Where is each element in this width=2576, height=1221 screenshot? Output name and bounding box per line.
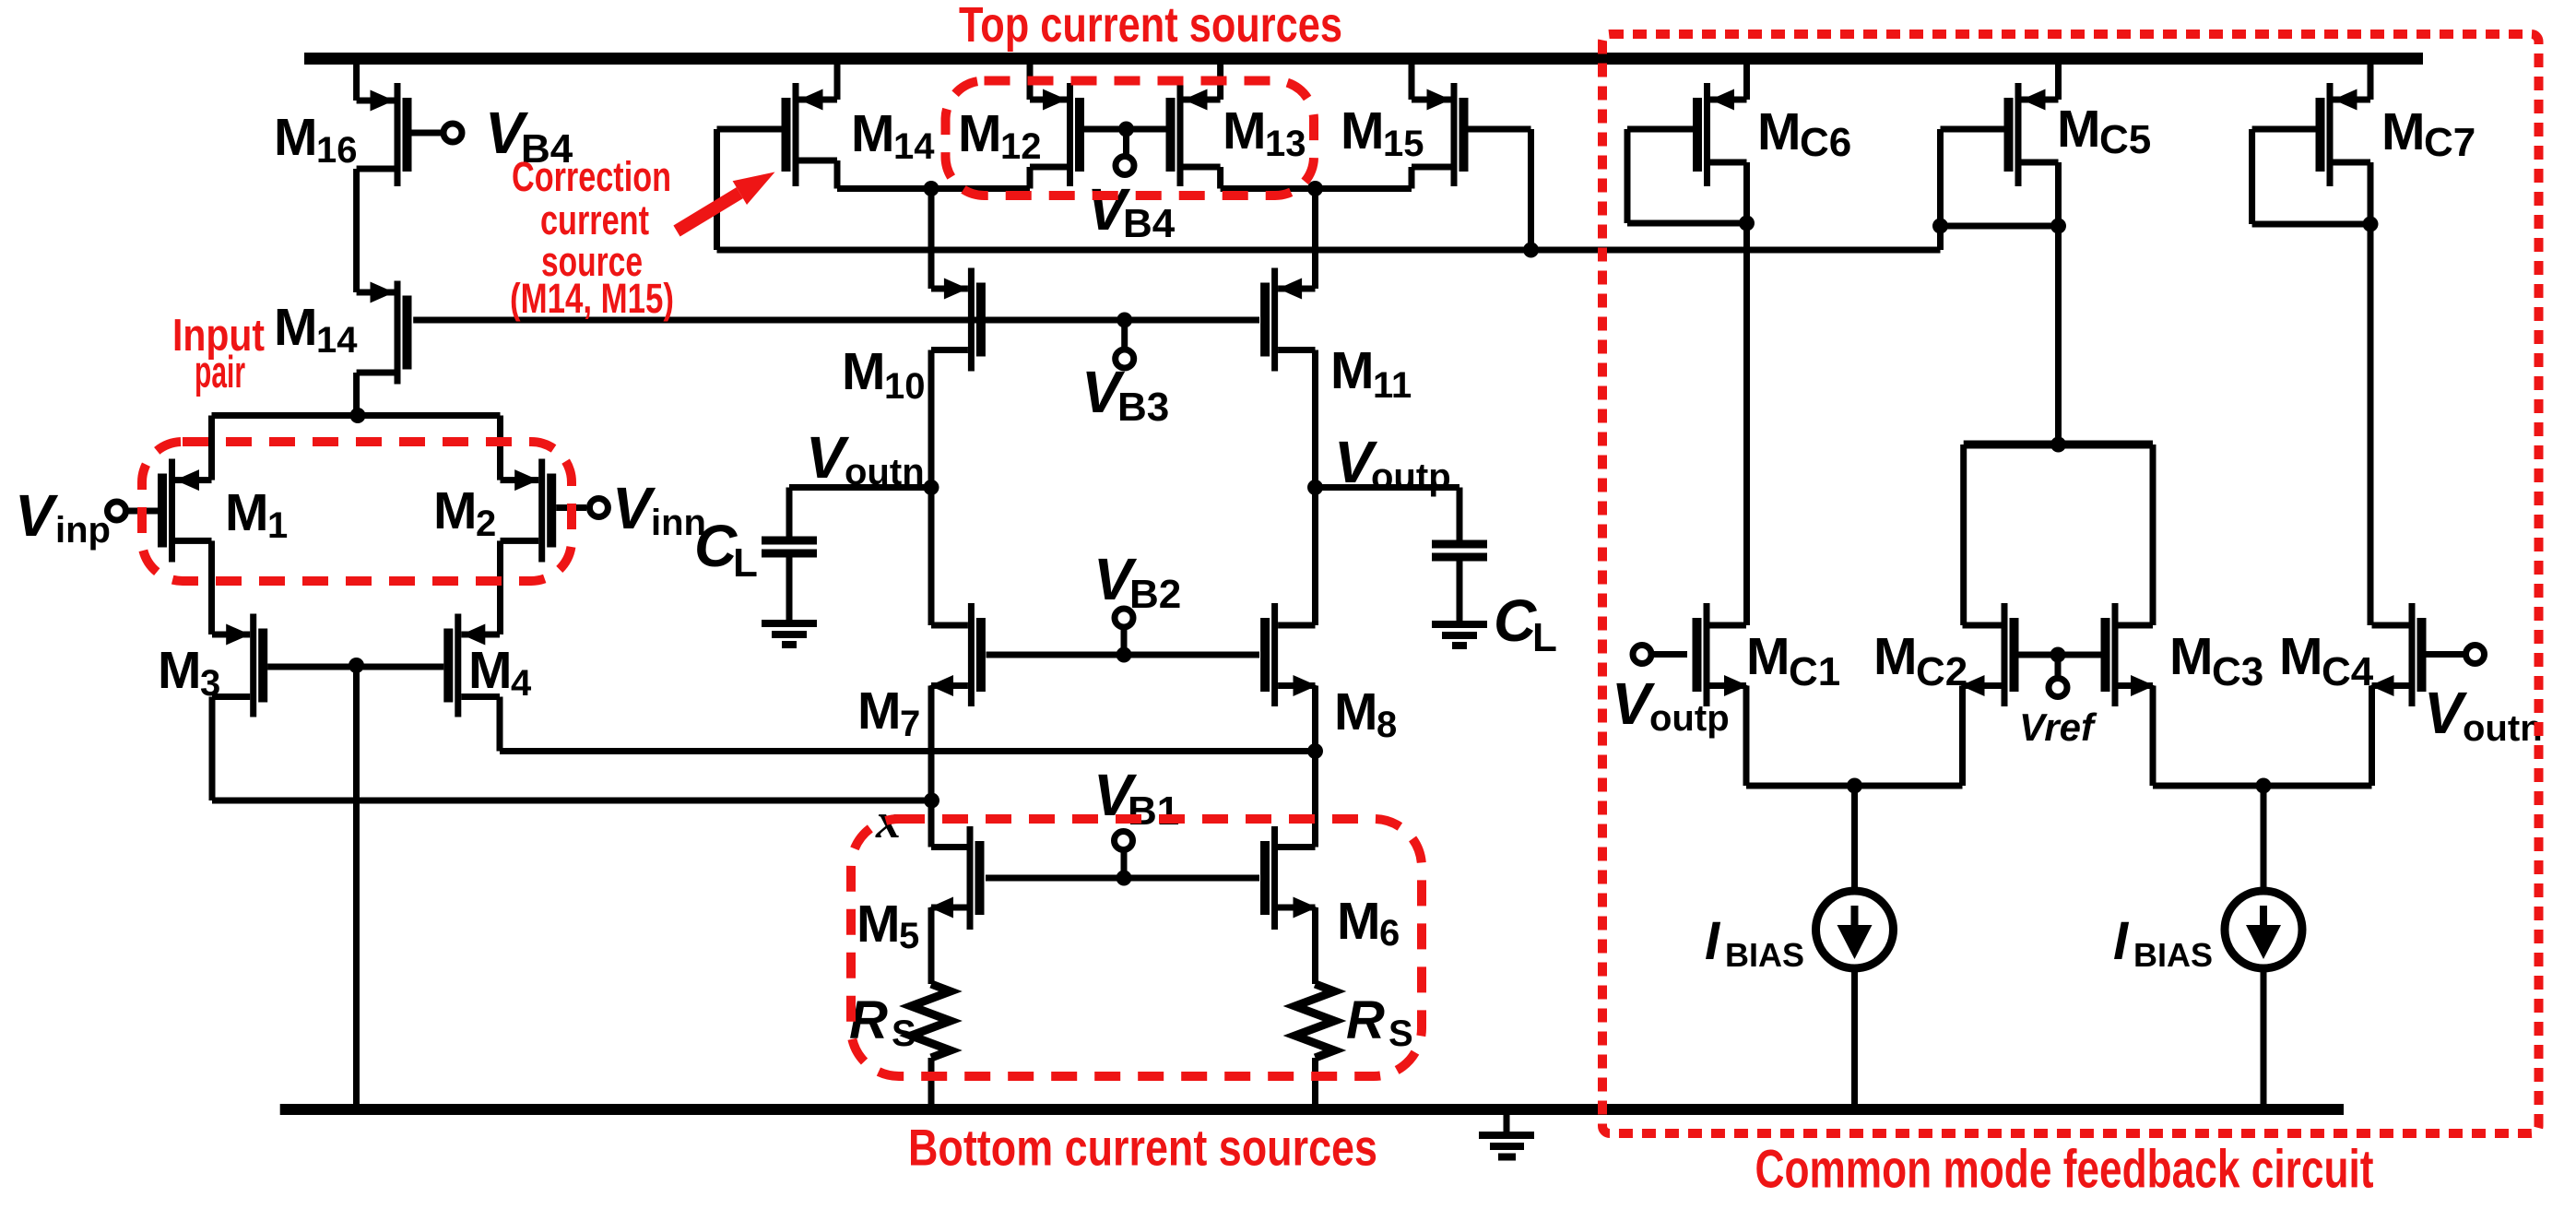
svg-text:BIAS: BIAS (1725, 936, 1804, 974)
transistor M2 (501, 459, 557, 563)
wire M13 source to VDD (1217, 61, 1223, 100)
wire MC6 drain drop (1743, 162, 1750, 223)
wire IBIAS2 stem bottom (2261, 966, 2267, 1104)
node MC6 gate drain junction (1739, 216, 1755, 231)
transistor M13 (1166, 83, 1221, 186)
transistor MC7 (2316, 83, 2371, 186)
resistor RS left (911, 984, 951, 1058)
svg-text:8: 8 (1377, 705, 1397, 745)
svg-text:C6: C6 (1800, 120, 1851, 165)
svg-text:I: I (2113, 911, 2130, 971)
label Voutn (806, 424, 925, 492)
svg-text:M: M (1337, 892, 1380, 951)
wire node x horizontal (212, 798, 932, 804)
svg-text:current: current (540, 196, 649, 243)
svg-text:R: R (1346, 990, 1385, 1050)
svg-text:M: M (433, 481, 477, 540)
wire MC2 drain riser (1960, 445, 1967, 625)
svg-text:M: M (851, 104, 894, 163)
label VB1 (1093, 762, 1179, 834)
wire M2 drain to M4 (497, 540, 503, 634)
label IBIAS1 (1705, 911, 1804, 974)
wire M12 drain drop (1027, 167, 1034, 189)
annotation CMFB text (1755, 1140, 2374, 1200)
svg-text:M: M (1746, 627, 1790, 686)
wire M4 to M8 source (500, 748, 1316, 754)
annotation correction arrow (673, 172, 774, 237)
wire M8 source to node (1312, 686, 1318, 752)
label M11 (1330, 341, 1412, 406)
wire IBIAS2 stem top (2261, 786, 2267, 893)
wire Voutn tap (789, 484, 931, 491)
wire VDD rail (304, 53, 2423, 65)
svg-text:outp: outp (1649, 698, 1730, 739)
wire correction bias line (717, 247, 1941, 254)
svg-text:V: V (2424, 680, 2468, 746)
node M11 source junction (1307, 181, 1323, 196)
node tail junction (350, 408, 366, 423)
ground CL left (762, 620, 817, 648)
node Voutn terminal at MC4 (2466, 646, 2485, 664)
wire M15 gate lead (1469, 126, 1531, 133)
svg-text:M: M (1873, 627, 1917, 686)
wire RS right to ground (1312, 1058, 1318, 1104)
current source IBIAS2 (2225, 891, 2302, 968)
svg-text:Vref: Vref (2019, 705, 2097, 749)
wire M5 drain riser (928, 800, 935, 848)
svg-text:(M14, M15): (M14, M15) (510, 275, 674, 322)
resistor RS right (1295, 984, 1335, 1058)
node MC7 gate drain junction (2363, 217, 2379, 232)
wire IBIAS1 stem top (1851, 786, 1858, 893)
svg-text:7: 7 (900, 704, 920, 744)
label VB3 (1081, 359, 1169, 430)
label Voutp at MC1 (1612, 670, 1730, 739)
label M13 (1223, 101, 1306, 164)
svg-text:B4: B4 (1123, 201, 1176, 246)
node Vref terminal (2049, 679, 2067, 697)
svg-text:M: M (274, 108, 317, 167)
wire RS left to ground (928, 1058, 935, 1104)
node VB3 dot (1117, 313, 1132, 328)
svg-text:6: 6 (1379, 913, 1400, 954)
wire VB3 stem (1121, 320, 1128, 349)
label MC1 (1746, 627, 1840, 694)
wire bias line up to MC5 (1937, 226, 1944, 250)
svg-text:outn: outn (2463, 708, 2543, 749)
svg-text:M: M (842, 342, 885, 401)
svg-text:C1: C1 (1789, 649, 1840, 694)
svg-text:16: 16 (316, 130, 358, 171)
transistor M11 (1260, 268, 1315, 372)
wire IBIAS1 stem bottom (1851, 966, 1858, 1104)
wire MC2 MC3 drain bar (1964, 441, 2153, 449)
label Vref (2019, 705, 2097, 749)
wire VB3 line (413, 317, 1259, 324)
label M15 (1341, 101, 1424, 164)
svg-text:15: 15 (1383, 124, 1424, 164)
svg-text:M: M (2381, 102, 2425, 161)
wire Voutp tap (1316, 484, 1460, 491)
label Vinn (612, 475, 706, 543)
wire MC4 gate lead (2427, 651, 2466, 658)
svg-text:outn: outn (845, 452, 925, 492)
wire MC5 drain down (2055, 226, 2062, 445)
wire MC4 source drop (2369, 686, 2375, 787)
wire VB2 line (987, 652, 1260, 658)
svg-text:M: M (158, 641, 201, 700)
label Voutp (1334, 429, 1451, 497)
capacitor CL left (762, 537, 817, 558)
label M2 (433, 481, 496, 544)
label M4 (468, 641, 532, 704)
current source IBIAS1 (1816, 891, 1894, 968)
transistor MC5 (2004, 83, 2059, 186)
wire M7 source to node x (928, 686, 935, 801)
svg-text:C3: C3 (2212, 649, 2263, 694)
annotation input pair text (172, 311, 265, 397)
svg-text:M: M (225, 483, 268, 542)
wire Vinn lead (556, 504, 586, 511)
svg-text:inp: inp (55, 510, 111, 551)
node M15 gate on bias line (1523, 243, 1539, 258)
label M14 top (851, 104, 935, 167)
wire MC7 source to VDD (2368, 61, 2374, 100)
label RS right (1346, 990, 1413, 1054)
node VB1 dot (1117, 871, 1132, 886)
transistor M1 (158, 459, 212, 563)
svg-text:C7: C7 (2424, 120, 2476, 165)
wire MC3 source drop (2150, 686, 2157, 787)
wire MC1 gate lead (1651, 651, 1687, 658)
transistor M4 (443, 614, 500, 717)
transistor M16 (357, 83, 412, 186)
wire top node right (1221, 185, 1412, 192)
transistor MC6 (1693, 83, 1747, 186)
svg-text:I: I (1705, 911, 1721, 971)
node VB4 terminal at M16 (443, 124, 462, 142)
svg-text:Correction: Correction (512, 153, 671, 200)
wire MC5 source to VDD (2055, 61, 2062, 100)
node Voutp junction (1307, 480, 1323, 495)
svg-text:14: 14 (316, 320, 358, 361)
svg-text:2: 2 (476, 504, 496, 544)
wire M10 source riser (928, 189, 935, 290)
wire M10 drain to Voutn (928, 350, 935, 488)
node M3 M4 gate junction (349, 658, 364, 673)
annotation bottom current sources text (908, 1119, 1377, 1177)
label MC7 (2381, 102, 2476, 165)
node VB4 mid terminal (1116, 157, 1134, 175)
annotation bottom current sources box (851, 819, 1422, 1076)
svg-text:S: S (892, 1014, 916, 1054)
svg-text:B3: B3 (1117, 385, 1169, 430)
transistor M14 top (782, 83, 838, 186)
transistor M6 (1260, 826, 1318, 930)
wire Vref stem (2055, 655, 2062, 676)
wire VB4 stem (1123, 129, 1129, 154)
wire input pair tail (212, 412, 501, 419)
wire MC7 drain to MC4 (2368, 224, 2374, 625)
svg-text:Top current sources: Top current sources (959, 0, 1342, 53)
svg-text:M: M (857, 682, 901, 741)
transistor MC4 (2370, 603, 2427, 706)
label M1 (225, 483, 288, 546)
wire MC2 source drop (1959, 686, 1966, 787)
transistor M7 (929, 603, 986, 706)
wire Vref gate link (2019, 652, 2101, 658)
svg-text:C: C (1494, 587, 1537, 654)
node M10 source junction (924, 181, 939, 196)
svg-text:Bottom current sources: Bottom current sources (908, 1119, 1377, 1177)
wire M4 source down (497, 697, 503, 752)
label M7 (857, 682, 920, 744)
node MC5 drain split (2050, 437, 2066, 453)
wire VB2 stem (1121, 629, 1128, 655)
wire VB1 line (986, 875, 1259, 882)
svg-text:BIAS: BIAS (2133, 936, 2213, 974)
wire M12 M13 gate link (1084, 126, 1166, 133)
wire M16 source to VDD (353, 61, 360, 101)
wire M8 drain riser (1312, 488, 1318, 626)
wire M3 source down (209, 697, 216, 801)
svg-text:12: 12 (1000, 126, 1042, 167)
svg-text:M: M (1330, 341, 1374, 400)
label M16 (274, 108, 358, 171)
label MC4 (2279, 627, 2374, 694)
svg-text:M: M (1341, 101, 1384, 160)
svg-text:C4: C4 (2322, 649, 2374, 694)
svg-text:M: M (2169, 627, 2213, 686)
node MC5 drain junction (2050, 219, 2066, 234)
wire M16 gate lead (412, 130, 442, 136)
wire M13 drain drop (1217, 167, 1223, 189)
svg-text:V: V (612, 475, 656, 541)
wire MC7 drain drop (2368, 162, 2374, 224)
label MC5 (2057, 100, 2151, 162)
wire M1 drain to M3 (208, 540, 215, 634)
transistor MC2 (1961, 603, 2019, 706)
svg-text:M: M (2279, 627, 2322, 686)
wire VB1 stem (1121, 852, 1128, 878)
wire MC5 drain drop (2055, 162, 2062, 226)
svg-text:M: M (1223, 101, 1266, 160)
label M12 (958, 104, 1042, 167)
ground CL right (1432, 621, 1487, 649)
label Voutn at MC4 (2424, 680, 2543, 749)
node M8 source junction (1307, 743, 1323, 759)
transistor M8 (1260, 603, 1317, 706)
svg-text:B2: B2 (1129, 572, 1181, 617)
node VB2 terminal (1115, 609, 1133, 627)
svg-text:C: C (694, 513, 738, 579)
svg-text:M: M (468, 641, 512, 700)
wire M15 source to VDD (1409, 61, 1415, 100)
transistor M3 (212, 614, 267, 717)
label MC2 (1873, 627, 1967, 694)
annotation CMFB box (1602, 34, 2539, 1133)
wire M6 drain riser (1312, 752, 1318, 848)
wire M15 drain drop (1409, 167, 1415, 189)
wire MC3 drain riser (2150, 445, 2157, 625)
svg-text:5: 5 (899, 916, 919, 956)
label M8 (1334, 682, 1397, 745)
node MC5 gate junction (1932, 219, 1948, 234)
svg-text:L: L (733, 540, 758, 586)
svg-text:14: 14 (893, 126, 935, 167)
wire M16 drain to M14 source (353, 169, 360, 292)
label M10 (842, 342, 926, 407)
node Vinn terminal (589, 499, 608, 517)
svg-text:M: M (958, 104, 1001, 163)
wire CL right lead top (1457, 488, 1463, 545)
svg-text:C5: C5 (2099, 117, 2151, 162)
label M14 left (274, 298, 358, 361)
wire MC1 source drop (1743, 686, 1750, 787)
transistor M5 (929, 826, 985, 930)
node VB4 mid dot (1118, 122, 1134, 137)
transistor M14 correction source (357, 281, 412, 385)
node Vinp terminal (108, 502, 126, 520)
svg-text:V: V (806, 424, 850, 491)
label MC6 (1757, 102, 1851, 165)
wire MC6 gate loop (1625, 126, 1747, 227)
transistor M10 (931, 268, 986, 372)
label Vinp (15, 482, 111, 551)
label node x (875, 793, 901, 848)
svg-text:M: M (1757, 102, 1801, 161)
wire M5 source lead (928, 907, 935, 984)
svg-text:M: M (274, 298, 317, 357)
label CL right (1494, 587, 1557, 660)
wire MC7 gate loop (2249, 126, 2370, 228)
transistor M15 (1412, 83, 1469, 186)
label RS left (849, 990, 916, 1054)
label M3 (158, 641, 220, 704)
wire M7 drain riser (928, 488, 935, 626)
svg-text:S: S (1388, 1014, 1413, 1054)
wire M2 source riser (497, 416, 503, 480)
capacitor CL right (1432, 540, 1487, 562)
wire M12 source to VDD (1027, 61, 1034, 100)
wire M11 drain to Voutp (1312, 350, 1318, 488)
wire M14top gate lead (717, 126, 782, 133)
label MC3 (2169, 627, 2263, 694)
annotation top current sources text (959, 0, 1342, 53)
svg-text:V: V (15, 482, 59, 549)
transistor MC3 (2101, 603, 2156, 706)
node IBIAS2 junction (2256, 778, 2272, 794)
wire M1 source riser (208, 416, 215, 480)
wire MC3 MC4 source link (2153, 783, 2372, 789)
svg-text:11: 11 (1373, 365, 1412, 406)
svg-text:M: M (2057, 100, 2100, 159)
wire MC5 gate to drain (1941, 223, 2059, 230)
wire CL right lead bottom (1457, 557, 1463, 624)
wire M14top gate drop (714, 129, 720, 250)
svg-text:outp: outp (1371, 456, 1451, 497)
svg-text:1: 1 (267, 505, 288, 546)
ground main (1479, 1109, 1534, 1161)
svg-text:L: L (1532, 615, 1557, 660)
wire gate node to ground (353, 667, 360, 1104)
svg-text:4: 4 (511, 663, 532, 704)
label M6 (1337, 892, 1400, 954)
svg-text:10: 10 (884, 366, 926, 407)
node VB2 dot (1117, 647, 1132, 663)
annotation correction text (510, 153, 674, 322)
node VB1 terminal (1115, 832, 1133, 850)
node Voutn junction (924, 480, 939, 495)
svg-text:M: M (857, 895, 900, 954)
svg-text:B1: B1 (1128, 788, 1179, 834)
node x junction (924, 793, 939, 809)
wire MC5 gate loop (1937, 126, 2004, 227)
annotation top current sources box (946, 81, 1315, 196)
wire M11 source riser (1312, 189, 1318, 290)
node Voutp terminal at MC1 (1633, 646, 1651, 664)
annotation input pair box (142, 442, 572, 581)
node VB3 terminal (1116, 350, 1134, 368)
label VB4 at M16 (485, 100, 573, 172)
wire M14 source to VDD (834, 61, 841, 100)
svg-text:pair: pair (195, 348, 245, 397)
svg-text:Common mode feedback circuit: Common mode feedback circuit (1755, 1140, 2374, 1200)
wire MC1 MC2 source link (1746, 783, 1963, 789)
wire MC6 source to VDD (1743, 61, 1750, 100)
label M5 (857, 895, 919, 956)
label IBIAS2 (2113, 911, 2213, 974)
label VB4 mid (1087, 176, 1176, 246)
node Vref dot (2050, 647, 2066, 663)
transistor M12 (1030, 83, 1084, 186)
ground rail (280, 1104, 2344, 1115)
node IBIAS1 junction (1847, 778, 1862, 794)
svg-text:13: 13 (1265, 124, 1306, 164)
wire M15 gate drop (1528, 129, 1534, 250)
label VB2 (1093, 546, 1181, 617)
wire Vinp lead (126, 508, 158, 515)
wire M14top drain jog (834, 160, 841, 189)
label CL left (694, 513, 758, 586)
wire M3 M4 gate link (267, 664, 443, 670)
wire M6 source lead (1312, 907, 1318, 984)
wire MC6 drain to MC1 (1743, 223, 1750, 625)
transistor MC1 (1693, 603, 1749, 706)
wire M14 drain to tail (353, 373, 360, 416)
svg-text:M: M (1334, 682, 1377, 741)
wire top node left (837, 185, 1030, 192)
wire CL left lead bottom (786, 553, 793, 623)
wire CL left lead top (786, 488, 793, 541)
